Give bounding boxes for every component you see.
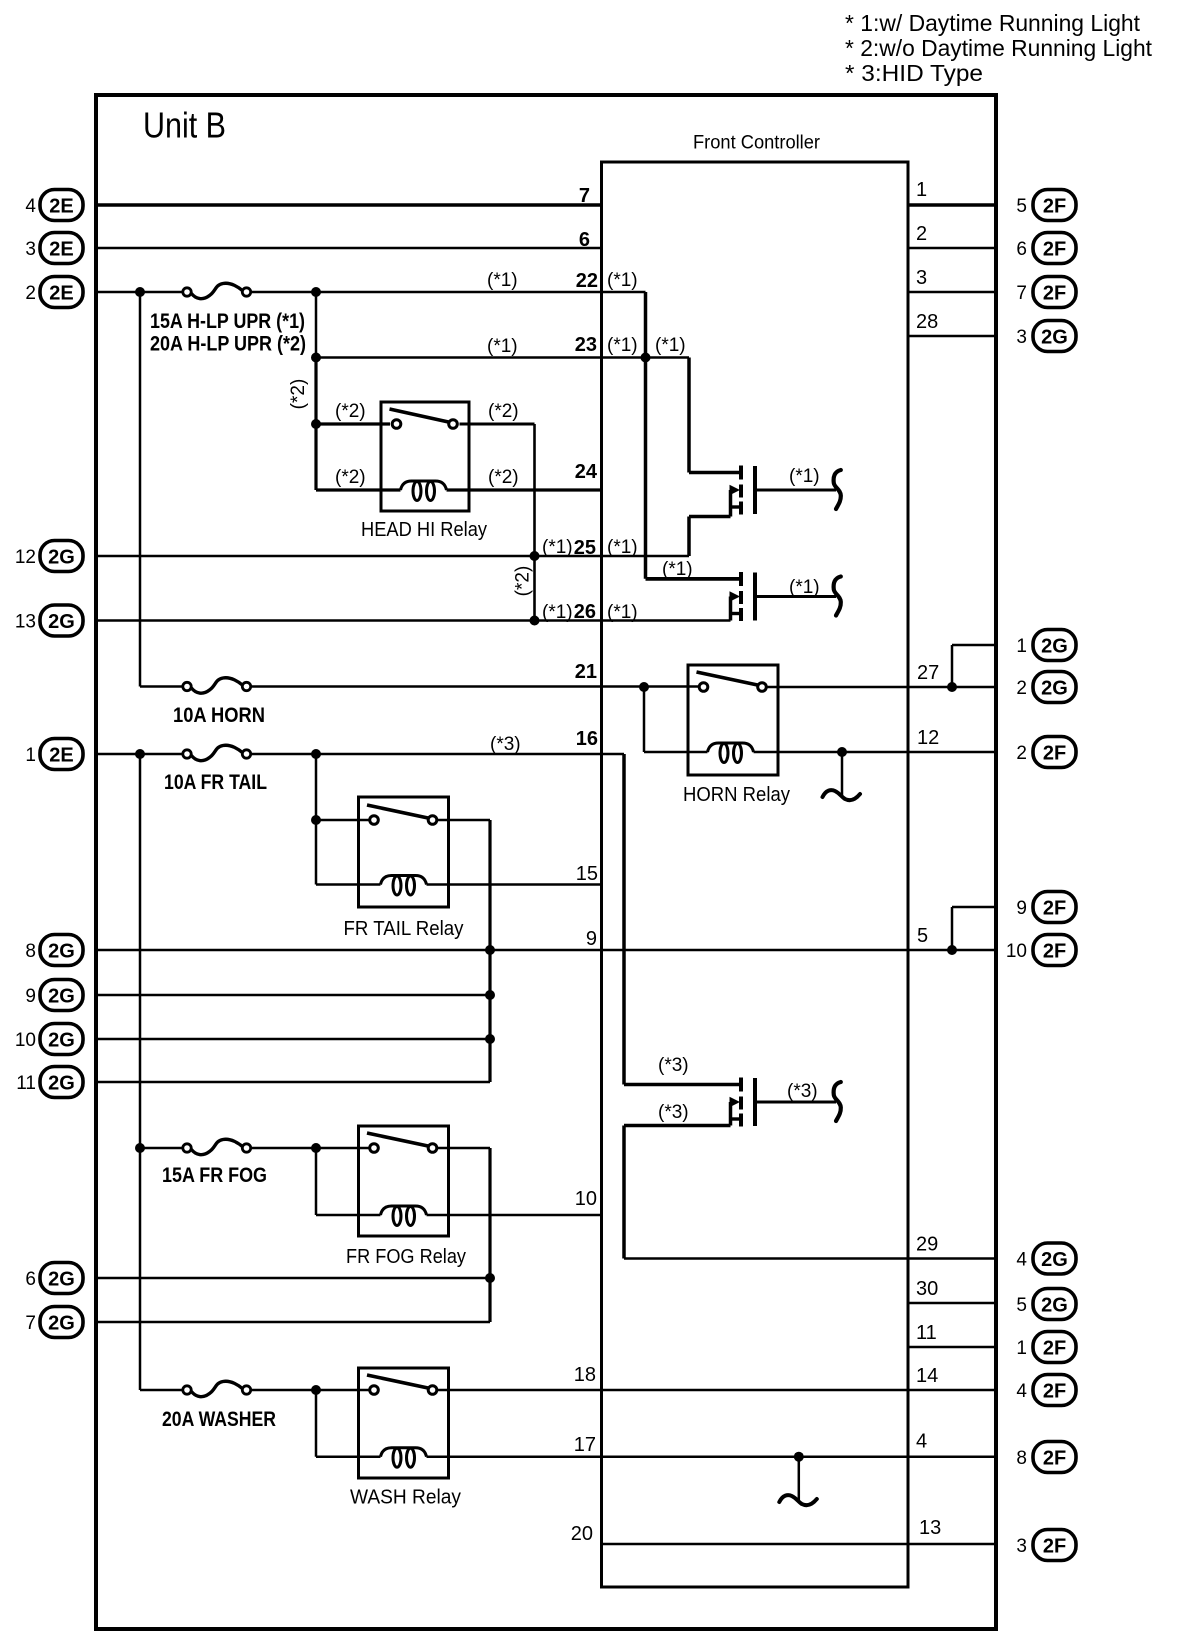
wire vertical x689 Q1 source to line25 bbox=[687, 517, 691, 557]
wire washer fuse line bbox=[140, 1389, 184, 1392]
svg-text:15: 15 bbox=[576, 863, 598, 885]
wire vertical x316 fr-tail bbox=[315, 754, 318, 885]
svg-text:2: 2 bbox=[1016, 678, 1027, 699]
transistor Q2 (*1) bbox=[646, 577, 741, 581]
node junction line26 x534 bbox=[530, 616, 540, 626]
svg-text:(*1): (*1) bbox=[607, 537, 638, 558]
svg-text:20: 20 bbox=[571, 1523, 593, 1545]
relay WASH box bbox=[359, 1368, 449, 1478]
wire jog up to 1(2G) bbox=[951, 645, 954, 687]
wire vertical x689 to Q1 gate bbox=[687, 358, 691, 473]
fuse 20A WASHER bbox=[191, 1381, 243, 1396]
svg-text:1: 1 bbox=[1016, 1338, 1027, 1359]
wire WASH coil right line17/4 to 8(2F) bbox=[427, 1455, 997, 1458]
svg-text:HORN Relay: HORN Relay bbox=[683, 784, 790, 806]
ground horn relay bbox=[841, 752, 844, 796]
svg-text:6: 6 bbox=[1016, 239, 1027, 260]
fuse 10A HORN bbox=[191, 678, 243, 693]
svg-text:30: 30 bbox=[916, 1278, 938, 1300]
svg-text:9: 9 bbox=[586, 928, 597, 950]
svg-text:6: 6 bbox=[579, 229, 590, 251]
wire jog up to 9(2F) bbox=[951, 907, 954, 950]
svg-text:4: 4 bbox=[1016, 1381, 1027, 1402]
node junction fog fuse x140 bbox=[135, 1143, 145, 1153]
svg-text:2G: 2G bbox=[48, 546, 75, 568]
wire HEAD HI contact out bbox=[460, 423, 535, 426]
node junction line16 x316 bbox=[311, 749, 321, 759]
svg-text:27: 27 bbox=[917, 662, 939, 684]
wire fuse H-LP to pin22 bbox=[250, 291, 646, 294]
node junction washer contact feed bbox=[311, 1385, 321, 1395]
wire Q3 source horizontal bbox=[624, 1124, 731, 1128]
svg-text:* 3:HID Type: * 3:HID Type bbox=[845, 60, 983, 86]
wire 6(2G) bbox=[96, 1277, 490, 1280]
wire HEAD HI coil right to pin24 bbox=[447, 488, 602, 491]
wire line29 to 4(2G) bbox=[624, 1257, 996, 1260]
svg-text:* 2:w/o Daytime Running Light: * 2:w/o Daytime Running Light bbox=[845, 35, 1153, 61]
wire vertical x316 (*2) branch bbox=[314, 358, 317, 491]
svg-text:2G: 2G bbox=[48, 1029, 75, 1051]
wire vertical feeder x140 upper (2E-2 to horn fuse) bbox=[139, 292, 142, 687]
transistor Q1 (*1) bbox=[689, 471, 740, 475]
svg-text:3: 3 bbox=[1016, 1536, 1027, 1557]
svg-text:11: 11 bbox=[16, 1073, 36, 1094]
svg-text:(*2): (*2) bbox=[288, 379, 309, 410]
wire line20 pin13 to 3(2F) bbox=[601, 1543, 996, 1546]
wire to 9(2F) bbox=[952, 906, 996, 909]
wire horn fuse to relay bbox=[250, 685, 699, 688]
wire Q2 gate lead horizontal bbox=[646, 577, 741, 581]
svg-text:5: 5 bbox=[917, 925, 928, 947]
wire to 1(2G) bbox=[952, 644, 996, 647]
wire 8(2G) line9 to pin5 and 9/10(2F) bbox=[96, 949, 996, 952]
svg-text:(*1): (*1) bbox=[542, 537, 573, 558]
relay FR FOG box bbox=[359, 1126, 449, 1236]
svg-text:7: 7 bbox=[25, 1313, 36, 1334]
wire Q3 source vertical x624 bbox=[622, 1126, 626, 1259]
node junction 9(2G) x490 bbox=[485, 990, 495, 1000]
Unit B outer box bbox=[96, 95, 996, 1629]
svg-text:(*1): (*1) bbox=[607, 270, 638, 291]
wire 12(2G) line25 to mosfet source bbox=[96, 555, 689, 558]
wire fog fuse to relay bbox=[250, 1147, 370, 1150]
node junction on line23 x645 bbox=[641, 353, 651, 363]
relay FR FOG coil bbox=[381, 1206, 427, 1215]
svg-text:17: 17 bbox=[574, 1434, 596, 1456]
svg-text:2G: 2G bbox=[48, 985, 75, 1007]
svg-text:2E: 2E bbox=[49, 195, 73, 217]
svg-text:6: 6 bbox=[25, 1269, 36, 1290]
wire horn contact out pin27 to 2(2G) bbox=[767, 686, 997, 689]
svg-text:10: 10 bbox=[1006, 941, 1027, 962]
svg-text:2: 2 bbox=[1016, 743, 1027, 764]
svg-text:1: 1 bbox=[1016, 636, 1027, 657]
svg-text:(*1): (*1) bbox=[487, 336, 518, 357]
squiggle Q2 drain bbox=[834, 577, 841, 616]
relay HEAD HI box bbox=[381, 402, 469, 511]
svg-text:9: 9 bbox=[25, 986, 36, 1007]
svg-text:2E: 2E bbox=[49, 744, 73, 766]
svg-text:25: 25 bbox=[574, 537, 596, 559]
node junction on line23 x316 bbox=[311, 353, 321, 363]
svg-text:9: 9 bbox=[1016, 898, 1027, 919]
svg-text:(*3): (*3) bbox=[658, 1102, 689, 1123]
svg-text:23: 23 bbox=[575, 334, 597, 356]
svg-text:7: 7 bbox=[579, 185, 590, 207]
svg-text:15A FR FOG: 15A FR FOG bbox=[162, 1164, 267, 1187]
wire WASH coil left bbox=[316, 1455, 381, 1458]
svg-text:4: 4 bbox=[25, 196, 36, 217]
svg-text:Unit B: Unit B bbox=[143, 105, 226, 146]
svg-text:5: 5 bbox=[1016, 1295, 1027, 1316]
svg-text:(*1): (*1) bbox=[607, 602, 638, 623]
svg-text:3: 3 bbox=[1016, 327, 1027, 348]
svg-text:HEAD HI Relay: HEAD HI Relay bbox=[361, 519, 487, 541]
svg-text:2E: 2E bbox=[49, 282, 73, 304]
relay FR TAIL box bbox=[359, 797, 449, 907]
fuse 15A/20A H-LP UPR bbox=[191, 283, 243, 298]
wire pin3 to 7(2F) bbox=[908, 291, 996, 294]
wire line 23 to gate node bbox=[316, 356, 689, 359]
wire pin1 to 5(2F) bbox=[908, 203, 996, 206]
wire 11(2G) bbox=[96, 1081, 490, 1084]
svg-text:(*2): (*2) bbox=[488, 401, 519, 422]
node junction fr-tail contact feed bbox=[311, 815, 321, 825]
svg-text:(*2): (*2) bbox=[488, 467, 519, 488]
svg-text:4: 4 bbox=[1016, 1250, 1027, 1271]
wire pin30 to 5(2G) bbox=[908, 1302, 996, 1305]
relay FR FOG contact bbox=[367, 1133, 428, 1146]
wire FR FOG coil left bbox=[316, 1214, 381, 1217]
svg-text:10A HORN: 10A HORN bbox=[173, 704, 265, 727]
svg-text:(*3): (*3) bbox=[658, 1055, 689, 1076]
wire 9(2G) bbox=[96, 994, 490, 997]
svg-text:20A H-LP UPR (*2): 20A H-LP UPR (*2) bbox=[150, 333, 306, 356]
svg-text:5: 5 bbox=[1016, 196, 1027, 217]
wire vertical x644 to horn coil bbox=[643, 687, 646, 752]
svg-text:13: 13 bbox=[919, 1517, 941, 1539]
svg-text:2G: 2G bbox=[1041, 635, 1068, 657]
wire line16 fuse to pin16 and branch bbox=[250, 753, 625, 756]
wire vertical x490 fr-tail out bbox=[488, 820, 491, 1082]
node junction 2E-2 at x316 bbox=[311, 287, 321, 297]
wire FR TAIL contact out bbox=[437, 819, 490, 822]
svg-text:2F: 2F bbox=[1043, 238, 1066, 260]
svg-text:(*3): (*3) bbox=[490, 734, 521, 755]
svg-text:2F: 2F bbox=[1043, 1337, 1066, 1359]
wire vertical x645 pin22 branch bbox=[644, 292, 648, 579]
svg-text:10: 10 bbox=[575, 1188, 597, 1210]
node junction line9 x490 bbox=[485, 945, 495, 955]
svg-text:4: 4 bbox=[916, 1431, 927, 1453]
svg-text:2G: 2G bbox=[1041, 1294, 1068, 1316]
node junction line25 x534 bbox=[530, 551, 540, 561]
svg-text:2E: 2E bbox=[49, 238, 73, 260]
svg-text:(*1): (*1) bbox=[662, 559, 693, 580]
Front Controller box U1 bbox=[602, 162, 909, 1587]
svg-text:2G: 2G bbox=[1041, 1249, 1068, 1271]
squiggle Q3 drain bbox=[834, 1082, 841, 1121]
svg-text:10: 10 bbox=[15, 1030, 36, 1051]
svg-text:16: 16 bbox=[576, 728, 598, 750]
squiggle Q1 drain bbox=[834, 470, 841, 509]
svg-text:15A H-LP UPR (*1): 15A H-LP UPR (*1) bbox=[150, 310, 305, 333]
wire pin2 to 6(2F) bbox=[908, 247, 996, 250]
wire 13(2G) line26 to mosfet source bbox=[96, 619, 731, 622]
wire horn fuse line 21 bbox=[140, 685, 184, 688]
node junction 10(2G) x490 bbox=[485, 1034, 495, 1044]
svg-text:2G: 2G bbox=[48, 1072, 75, 1094]
svg-text:2: 2 bbox=[916, 223, 927, 245]
svg-text:2F: 2F bbox=[1043, 195, 1066, 217]
svg-text:8: 8 bbox=[1016, 1448, 1027, 1469]
wire 2(2E) to fuse bbox=[96, 291, 184, 294]
wire horn coil right pin12 to 2(2F) bbox=[754, 751, 997, 754]
ground bottom bbox=[798, 1457, 801, 1501]
wire pin28 to 3(2G) bbox=[908, 335, 996, 338]
transistor Q3 (*3) bbox=[624, 1083, 740, 1087]
wire FR TAIL coil left bbox=[316, 883, 381, 886]
svg-text:2F: 2F bbox=[1043, 742, 1066, 764]
wire into FR TAIL contact bbox=[316, 819, 370, 822]
wire 3(2E) to pin6 bbox=[96, 247, 601, 250]
svg-text:22: 22 bbox=[576, 270, 598, 292]
svg-text:3: 3 bbox=[916, 267, 927, 289]
wire vertical x490 fog out bbox=[488, 1148, 491, 1322]
wire washer fuse to relay and pin18/14 to 4(2F) bbox=[250, 1389, 370, 1392]
wire horn coil left bbox=[644, 751, 708, 754]
wire 10(2G) bbox=[96, 1038, 490, 1041]
svg-text:12: 12 bbox=[15, 547, 36, 568]
relay HORN box bbox=[688, 665, 778, 775]
relay HORN coil bbox=[708, 743, 754, 752]
svg-text:WASH Relay: WASH Relay bbox=[350, 1487, 461, 1509]
svg-text:21: 21 bbox=[575, 661, 597, 683]
svg-text:(*1): (*1) bbox=[607, 335, 638, 356]
node junction head-hi contact feed bbox=[311, 419, 321, 429]
node junction line16 x140 bbox=[135, 749, 145, 759]
wire Q1 source horizontal bbox=[689, 515, 731, 519]
node junction horn ground bbox=[837, 747, 847, 757]
svg-text:(*1): (*1) bbox=[487, 270, 518, 291]
wire vertical x534 down to line26 bbox=[533, 424, 536, 621]
svg-text:29: 29 bbox=[916, 1234, 938, 1256]
fuse 10A FR TAIL bbox=[191, 745, 243, 760]
wire 4(2E) to pin7 bbox=[96, 203, 601, 206]
relay HEAD HI contact bbox=[390, 409, 449, 422]
svg-text:11: 11 bbox=[916, 1322, 937, 1344]
svg-text:24: 24 bbox=[575, 461, 598, 483]
svg-text:2F: 2F bbox=[1043, 1380, 1066, 1402]
svg-text:12: 12 bbox=[917, 727, 939, 749]
svg-text:2: 2 bbox=[25, 283, 36, 304]
svg-text:7: 7 bbox=[1016, 283, 1027, 304]
svg-text:28: 28 bbox=[916, 311, 938, 333]
wire FR TAIL coil right to pin15 bbox=[427, 883, 602, 886]
relay HEAD HI coil bbox=[401, 481, 447, 490]
relay FR TAIL contact bbox=[367, 805, 428, 818]
svg-text:2F: 2F bbox=[1043, 897, 1066, 919]
svg-text:2G: 2G bbox=[48, 611, 75, 633]
svg-text:2G: 2G bbox=[1041, 677, 1068, 699]
svg-text:(*1): (*1) bbox=[542, 602, 573, 623]
svg-text:* 1:w/ Daytime Running Light: * 1:w/ Daytime Running Light bbox=[845, 10, 1141, 36]
svg-text:18: 18 bbox=[574, 1364, 596, 1386]
relay WASH contact bbox=[367, 1375, 428, 1388]
node junction line9 x952 bbox=[947, 945, 957, 955]
svg-text:(*1): (*1) bbox=[789, 577, 820, 598]
svg-text:FR FOG Relay: FR FOG Relay bbox=[346, 1246, 466, 1268]
relay FR TAIL coil bbox=[381, 876, 427, 885]
svg-text:20A WASHER: 20A WASHER bbox=[162, 1408, 276, 1431]
svg-text:(*2): (*2) bbox=[513, 566, 534, 597]
svg-text:2F: 2F bbox=[1043, 940, 1066, 962]
node junction 6(2G) x490 bbox=[485, 1273, 495, 1283]
svg-text:26: 26 bbox=[574, 601, 596, 623]
svg-text:2F: 2F bbox=[1043, 1535, 1066, 1557]
node junction fog contact feed bbox=[311, 1143, 321, 1153]
svg-text:(*2): (*2) bbox=[335, 401, 366, 422]
svg-text:1: 1 bbox=[916, 179, 927, 201]
node junction 2E-2 at x140 bbox=[135, 287, 145, 297]
node junction bottom ground bbox=[794, 1452, 804, 1462]
wire pin16 branch vertical x624 bbox=[622, 754, 626, 1085]
fuse 15A FR FOG bbox=[191, 1139, 243, 1154]
svg-text:2F: 2F bbox=[1043, 282, 1066, 304]
svg-text:13: 13 bbox=[15, 612, 36, 633]
svg-text:1: 1 bbox=[25, 745, 36, 766]
svg-text:8: 8 bbox=[25, 941, 36, 962]
svg-text:FR TAIL Relay: FR TAIL Relay bbox=[344, 918, 464, 940]
relay HORN contact bbox=[697, 672, 758, 685]
svg-text:2G: 2G bbox=[48, 1312, 75, 1334]
svg-text:(*1): (*1) bbox=[789, 466, 820, 487]
svg-text:2G: 2G bbox=[1041, 326, 1068, 348]
wire WASH contact out line18/14 bbox=[437, 1389, 996, 1392]
wire FR FOG contact out bbox=[437, 1147, 490, 1150]
svg-text:(*2): (*2) bbox=[335, 467, 366, 488]
node junction x952 line27 bbox=[947, 682, 957, 692]
svg-text:(*1): (*1) bbox=[655, 335, 686, 356]
node junction horn coil feed bbox=[639, 682, 649, 692]
svg-text:2G: 2G bbox=[48, 1268, 75, 1290]
wire into HEAD HI contact bbox=[316, 422, 390, 425]
svg-text:2G: 2G bbox=[48, 940, 75, 962]
wire 1(2E) line16 left bbox=[96, 753, 184, 756]
wire HEAD HI coil line to pin24 bbox=[316, 488, 401, 491]
wire vertical x316 fog bbox=[315, 1148, 318, 1215]
svg-text:10A FR TAIL: 10A FR TAIL bbox=[164, 771, 267, 794]
wire vertical x316 (22 to 23 to head-hi relay) bbox=[315, 292, 318, 358]
wire pin11 to 1(2F) bbox=[908, 1346, 996, 1349]
wire 7(2G) bbox=[96, 1321, 490, 1324]
svg-text:(*3): (*3) bbox=[787, 1081, 818, 1102]
svg-text:2F: 2F bbox=[1043, 1447, 1066, 1469]
wire FR FOG coil right to pin10 bbox=[427, 1214, 602, 1217]
svg-text:14: 14 bbox=[916, 1365, 938, 1387]
wire vertical x316 washer bbox=[315, 1390, 318, 1457]
wire vertical feeder x140 lower (1E-1 to fog/washer fuses) bbox=[139, 754, 142, 1390]
svg-text:Front Controller: Front Controller bbox=[693, 133, 821, 154]
svg-text:3: 3 bbox=[25, 239, 36, 260]
relay WASH coil bbox=[381, 1448, 427, 1457]
wire fog fuse line bbox=[140, 1147, 184, 1150]
